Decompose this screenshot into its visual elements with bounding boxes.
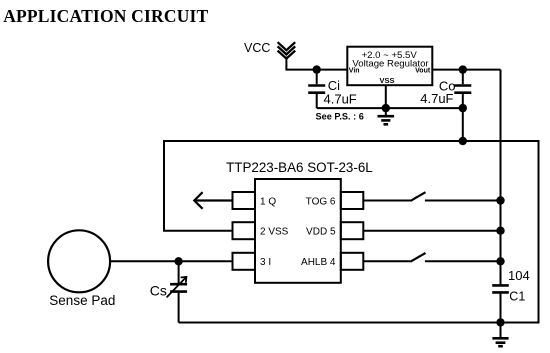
svg-text:AHLB 4: AHLB 4 xyxy=(301,257,336,268)
svg-text:TOG 6: TOG 6 xyxy=(306,196,336,207)
node junction C1 bottom xyxy=(496,318,504,326)
wire sense pad to pin 3 I xyxy=(110,260,232,262)
svg-text:2 VSS: 2 VSS xyxy=(260,227,289,238)
svg-text:Cs: Cs xyxy=(150,282,167,298)
svg-text:See P.S. : 6: See P.S. : 6 xyxy=(316,112,364,122)
sense pad electrode (circle) xyxy=(48,230,110,292)
wire VCC rail vertical xyxy=(500,70,502,285)
capacitor C1 xyxy=(492,285,509,322)
voltage regulator U (box) xyxy=(347,47,432,85)
wire ground loop (top/right/bottom/left) xyxy=(164,141,539,323)
pin box 2 VSS xyxy=(233,222,256,239)
switch S2 (AHLB) xyxy=(363,253,500,262)
svg-text:TTP223-BA6 SOT-23-6L: TTP223-BA6 SOT-23-6L xyxy=(226,160,373,175)
output arrow on pin 1 Q xyxy=(194,192,232,209)
svg-text:104: 104 xyxy=(508,268,530,283)
capacitor Cs (variable) xyxy=(170,261,187,322)
switch S1 (TOG) xyxy=(363,192,500,201)
svg-text:C1: C1 xyxy=(509,289,525,303)
wire regulator VSS stem xyxy=(385,85,387,108)
pin box 3 I xyxy=(233,253,256,270)
node junction Cs top xyxy=(174,257,182,265)
svg-text:Vout: Vout xyxy=(415,67,431,74)
node junction Co top xyxy=(459,65,467,73)
svg-text:VCC: VCC xyxy=(244,41,270,55)
pin box 5 VDD xyxy=(341,222,364,239)
wire Co bottom to ground loop xyxy=(462,108,464,141)
svg-text:4.7uF: 4.7uF xyxy=(324,92,357,107)
ground symbol (bottom right) xyxy=(492,323,508,347)
wire ground bus Ci to Co xyxy=(317,107,463,109)
node junction TOG rail xyxy=(496,196,504,204)
arrow across Cs xyxy=(167,277,187,298)
wire regulator Vout to right rail xyxy=(432,69,500,71)
svg-text:4.7uF: 4.7uF xyxy=(420,91,453,106)
node junction VSS/ground xyxy=(382,104,390,112)
node junction VDD rail xyxy=(496,227,504,235)
node junction Co bottom xyxy=(459,104,467,112)
wire VDD 5 to rail xyxy=(363,230,500,232)
svg-text:APPLICATION CIRCUIT: APPLICATION CIRCUIT xyxy=(3,6,208,26)
capacitor Co xyxy=(454,70,471,109)
svg-text:VDD 5: VDD 5 xyxy=(306,227,336,238)
node junction AHLB rail xyxy=(496,257,504,265)
node junction ground loop top xyxy=(459,137,467,145)
ground symbol (regulator) xyxy=(378,108,395,124)
svg-text:Vin: Vin xyxy=(349,67,360,74)
wire VCC to regulator Vin xyxy=(286,57,347,70)
pin box 6 TOG xyxy=(341,192,364,209)
svg-text:VSS: VSS xyxy=(379,76,394,85)
capacitor Ci xyxy=(308,70,325,109)
power symbol VCC (triple chevron) xyxy=(278,42,296,58)
svg-text:3 I: 3 I xyxy=(260,257,271,268)
svg-text:Ci: Ci xyxy=(328,78,340,93)
pin box 1 Q xyxy=(233,192,256,209)
svg-text:Sense Pad: Sense Pad xyxy=(49,293,115,308)
pin box 4 AHLB xyxy=(341,253,364,270)
node junction Ci top xyxy=(313,65,321,73)
svg-text:1 Q: 1 Q xyxy=(260,196,276,207)
chip U1 TTP223-BA6 (body) xyxy=(255,179,341,283)
